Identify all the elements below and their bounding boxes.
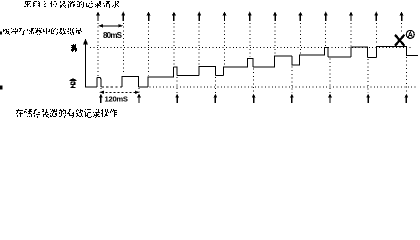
label: record requests from host device (top) xyxy=(24,1,119,8)
effective record operation arrow 7 (bottom) xyxy=(328,59,332,104)
record request arrow 11 (top) xyxy=(349,12,353,46)
svg-text:120mS: 120mS xyxy=(105,94,129,103)
effective record operation arrow 3 (bottom) xyxy=(175,77,179,103)
record request arrow 7 (top) xyxy=(248,12,252,57)
scan artifact: left edge mark (middle) xyxy=(0,31,2,34)
effective record operation arrow 9 (bottom) xyxy=(404,57,408,103)
X mark: lost record request (buffer full) xyxy=(395,35,404,46)
record request arrow 9 (top) xyxy=(298,12,302,54)
waveform: buffer data amount staircase xyxy=(86,78,101,87)
label: amount of data in buffer memory (left) xyxy=(3,28,82,35)
effective record operation arrow 1 (bottom) xyxy=(99,88,103,103)
record request arrow 2 (top) xyxy=(121,12,125,75)
label: empty (axis bottom) xyxy=(70,78,77,88)
record request arrow 1 (top) xyxy=(96,12,100,76)
record request arrow 6 (top) xyxy=(223,12,227,66)
record request arrow 13 (top) xyxy=(400,12,404,33)
effective record operation arrow 2 (bottom) xyxy=(137,88,141,103)
record request arrow 8 (top) xyxy=(273,12,277,55)
record request arrow 3 (top) xyxy=(147,12,151,76)
record request arrow 4 (top) xyxy=(172,12,176,66)
axis: buffer data amount (vertical arrow) xyxy=(83,39,88,88)
scan artifact: left edge mark (lower) xyxy=(0,85,2,89)
dimension arrow: 120mS between operation 1 and 2 xyxy=(99,91,139,94)
dimension arrow: 80mS between request 1 and 2 xyxy=(98,24,123,28)
effective record operation arrow 4 (bottom) xyxy=(213,77,217,103)
effective record operation arrow 5 (bottom) xyxy=(252,69,256,104)
waveform baseline (dashed) between first pulses xyxy=(102,86,122,88)
effective record operation arrow 6 (bottom) xyxy=(290,67,294,104)
record request arrow 12 (top) xyxy=(374,12,378,45)
label: full (axis top) xyxy=(71,44,77,52)
record request arrow 10 (top) xyxy=(324,12,328,46)
record request arrow 5 (top) xyxy=(197,12,201,65)
svg-text:80mS: 80mS xyxy=(103,31,123,40)
dotted line: buffer-full level xyxy=(90,47,412,49)
circled A marker xyxy=(406,30,414,38)
effective record operation arrow 8 (bottom) xyxy=(366,59,370,103)
dotted line: buffer-empty baseline xyxy=(146,86,418,88)
label: effective record operations to storage device (bottom) xyxy=(16,109,117,118)
